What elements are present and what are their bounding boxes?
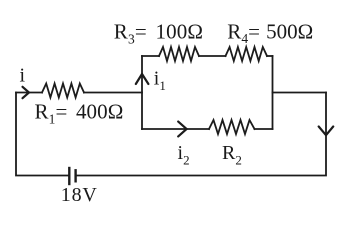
svg-text:18V: 18V (61, 184, 98, 206)
svg-text:i: i (20, 65, 26, 87)
svg-text:i2: i2 (178, 142, 190, 168)
svg-text:R2: R2 (222, 142, 242, 168)
svg-text:R3= 100Ω: R3= 100Ω (114, 19, 203, 46)
svg-text:R1= 400Ω: R1= 400Ω (35, 100, 124, 127)
svg-text:R4= 500Ω: R4= 500Ω (227, 19, 313, 46)
svg-text:i1: i1 (154, 68, 166, 94)
